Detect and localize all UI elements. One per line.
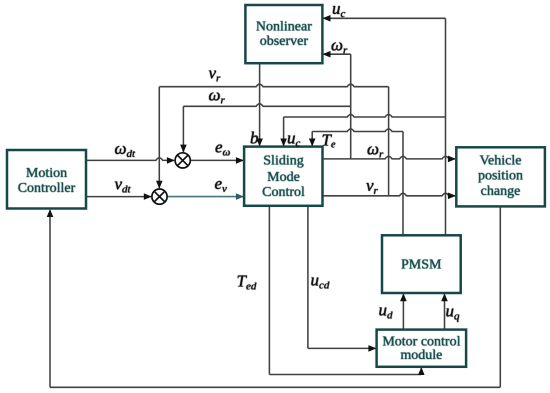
wire V16 arrow into motor module bottom bbox=[420, 368, 422, 375]
svg-text:observer: observer bbox=[260, 34, 309, 49]
arrowhead omega_r into observer bbox=[323, 51, 331, 58]
wire V5 T_ed vertical from SMC bottom bbox=[268, 206, 270, 375]
arrowhead u_c into observer bbox=[323, 15, 331, 22]
arrowhead omega_dt into junction 1 bbox=[167, 157, 175, 164]
box motor control module bbox=[377, 330, 467, 367]
arrowhead omega_r into vehicle bbox=[448, 156, 456, 163]
box nonlinear observer bbox=[245, 5, 322, 63]
svg-text:Nonlinear: Nonlinear bbox=[256, 20, 312, 35]
wire H3 e_omega horizontal bbox=[190, 159, 243, 161]
box motion controller bbox=[7, 150, 86, 209]
wire H14 u_c top horizontal bbox=[324, 17, 446, 19]
arrowhead u_q into PMSM bbox=[441, 293, 448, 301]
svg-text:Vehicle: Vehicle bbox=[480, 154, 522, 169]
box vehicle position change bbox=[456, 147, 545, 206]
wire H5 v_r horizontal bbox=[159, 84, 388, 87]
wire H7 u_c horizontal bbox=[284, 115, 446, 118]
wire H6 omega_r horizontal bbox=[183, 104, 350, 107]
wire V7 u_cd vertical from SMC bottom bbox=[307, 206, 309, 349]
arrowhead T_e into SMC top bbox=[309, 139, 316, 147]
svg-text:Control: Control bbox=[262, 185, 305, 200]
svg-text:Controller: Controller bbox=[18, 181, 76, 196]
arrowhead feedback into motion controller bottom bbox=[47, 209, 54, 217]
arrowhead T_ed into motor module bottom bbox=[418, 367, 425, 375]
wire V15 vehicle output down bbox=[499, 207, 501, 388]
svg-text:Motor control: Motor control bbox=[382, 334, 460, 349]
arrowhead e_v into SMC (teal) bbox=[236, 193, 244, 200]
arrowhead u_cd into motor module bbox=[368, 345, 376, 352]
wire V11 T_e to PMSM vertical bbox=[402, 132, 404, 236]
arrowhead into junction 1 top bbox=[180, 145, 187, 153]
wire V4 observer b down to SMC bbox=[259, 63, 261, 146]
wire V13 u_d arrow vertical bbox=[402, 295, 404, 330]
wire H12 T_ed horizontal bbox=[269, 374, 421, 376]
svg-text:position: position bbox=[478, 169, 523, 184]
wire V9 omega_r vertical from observer input bbox=[350, 54, 352, 159]
wire H2 v_dt horizontal bbox=[86, 196, 151, 198]
arrowhead u_c into SMC top bbox=[280, 139, 287, 147]
svg-text:change: change bbox=[481, 184, 521, 199]
wire V14 u_q arrow vertical bbox=[444, 295, 446, 330]
wire H11 u_cd horizontal bbox=[308, 347, 376, 349]
arrowhead v_r into vehicle bbox=[448, 193, 456, 200]
arrowhead e_omega into SMC bbox=[236, 157, 244, 164]
box PMSM bbox=[382, 235, 461, 293]
summing junction 2 bbox=[152, 189, 167, 204]
svg-text:Sliding: Sliding bbox=[263, 154, 303, 169]
svg-text:Motion: Motion bbox=[26, 166, 67, 181]
summing junction 1 bbox=[175, 153, 190, 168]
arrowhead b into SMC top bbox=[256, 139, 263, 147]
wire H15 omega_r top horizontal bbox=[324, 53, 351, 55]
wire H8 T_e horizontal bbox=[312, 129, 403, 132]
svg-text:PMSM: PMSM bbox=[401, 257, 442, 272]
arrowhead u_d into PMSM bbox=[400, 293, 407, 301]
svg-text:Mode: Mode bbox=[267, 170, 300, 185]
wire H13 bottom feedback horizontal bbox=[50, 386, 500, 388]
arrowhead v_dt into junction 2 bbox=[144, 193, 152, 200]
wire V2 v_r down to junction 2 bbox=[158, 87, 160, 188]
wire H10 v_r to vehicle horizontal bbox=[324, 193, 456, 196]
wire H9 omega_r to vehicle horizontal bbox=[324, 156, 456, 159]
arrowhead into junction 2 top bbox=[156, 181, 163, 189]
svg-text:module: module bbox=[400, 348, 442, 363]
wire e_v teal horizontal bbox=[167, 196, 243, 198]
wire V10 v_r vertical bbox=[388, 87, 390, 196]
wire V3 omega_r down to junction 1 bbox=[182, 106, 184, 152]
svg-text:b: b bbox=[250, 129, 259, 148]
wire V8 T_e short vertical into SMC top bbox=[311, 132, 313, 147]
wire V1 feedback left vertical bbox=[49, 211, 51, 388]
wire V12 u_c to PMSM vertical bbox=[445, 18, 447, 235]
wire H1 omega_dt horizontal bbox=[86, 158, 174, 161]
box sliding mode control bbox=[244, 147, 322, 206]
wire V6 u_c short vertical into SMC top bbox=[283, 117, 285, 146]
